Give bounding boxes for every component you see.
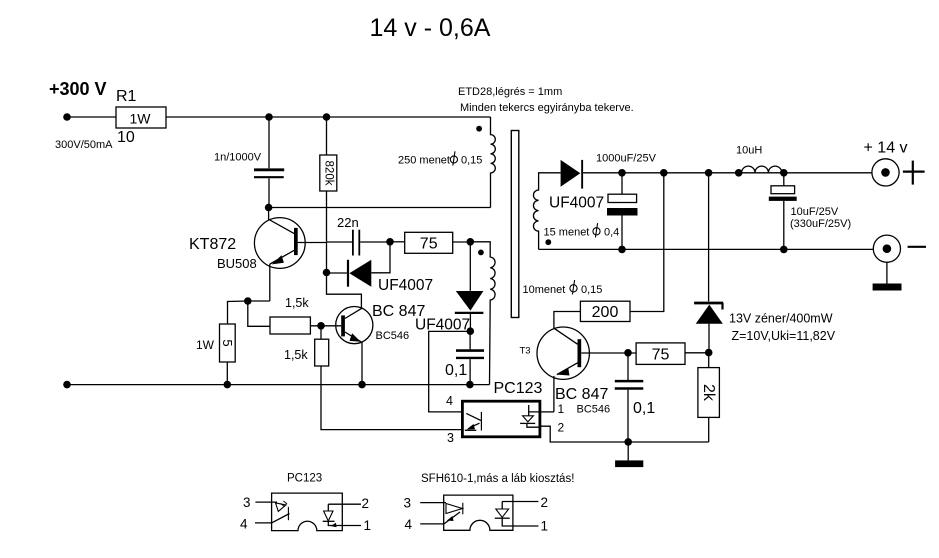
svg-text:0,15: 0,15 — [581, 284, 602, 296]
wire primary ground rail — [67, 384, 490, 386]
junction dot T3 base node — [624, 349, 632, 357]
svg-text:13V zéner/400mW: 13V zéner/400mW — [729, 312, 833, 326]
terminal +14v output — [872, 159, 899, 186]
junction dot 75 right — [467, 238, 475, 246]
junction dot 0,1 cap — [466, 381, 474, 389]
resistor 1,5k horizontal — [270, 317, 310, 334]
svg-text:300V/50mA: 300V/50mA — [55, 139, 113, 151]
svg-text:75: 75 — [420, 236, 438, 253]
capacitor C1 1n/1000V — [254, 117, 284, 208]
optocoupler U1 PC123 — [462, 401, 540, 437]
svg-text:3: 3 — [447, 431, 454, 445]
wire node down to 1,5k — [248, 301, 270, 326]
capacitor C5 1000uF/25V — [607, 173, 638, 250]
transistor Q1 KT872 — [254, 208, 326, 302]
svg-text:4: 4 — [240, 517, 248, 532]
wire PC123 pin1 to T3 emitter — [540, 411, 554, 413]
diode D2 UF4007 left-pointing — [327, 242, 391, 287]
svg-text:1,5k: 1,5k — [285, 296, 309, 310]
junction dot 1000uF bottom — [618, 246, 626, 254]
junction dot snubber — [265, 204, 273, 212]
svg-text:SFH610-1,más a láb kiosztás!: SFH610-1,más a láb kiosztás! — [421, 473, 574, 485]
svg-text:1n/1000V: 1n/1000V — [214, 152, 262, 164]
ground symbol secondary — [615, 442, 643, 467]
junction dot zener node — [705, 349, 713, 357]
wire output bottom rail — [539, 248, 874, 250]
phase dot aux — [478, 250, 484, 256]
junction dot base node — [317, 322, 325, 330]
resistor 5 (1W) — [220, 324, 236, 385]
wire emitter to node — [248, 300, 270, 302]
ground symbol output — [873, 262, 902, 290]
svg-text:ETD28,légrés = 1mm: ETD28,légrés = 1mm — [458, 86, 562, 98]
phase dot secondary — [545, 239, 551, 245]
junction dot secondary ground node — [624, 438, 632, 446]
junction dot zener feed — [705, 169, 713, 177]
wire output top rail — [583, 172, 872, 174]
wire top rail to transformer — [166, 116, 491, 118]
svg-text:2: 2 — [362, 496, 370, 511]
capacitor C7 0,1 (T3 base) — [615, 353, 644, 442]
wire 1,5k to base node — [310, 325, 341, 327]
svg-text:1: 1 — [364, 518, 372, 533]
resistor 1,5k vertical — [315, 326, 463, 430]
svg-text:1000uF/25V: 1000uF/25V — [596, 153, 657, 165]
svg-text:200: 200 — [592, 304, 619, 321]
svg-text:1: 1 — [558, 402, 565, 416]
svg-text:UF4007: UF4007 — [378, 277, 433, 294]
junction dot 200 feed — [660, 169, 668, 177]
transformer aux winding 10 menet — [470, 242, 495, 385]
node +300V input dot — [63, 113, 71, 121]
svg-text:3: 3 — [404, 496, 412, 511]
svg-text:BC546: BC546 — [376, 330, 410, 342]
diode D3 UF4007 down-pointing — [455, 242, 484, 331]
junction dot inductor right — [780, 169, 788, 177]
svg-text:5: 5 — [220, 339, 235, 346]
svg-text:10menet: 10menet — [523, 284, 566, 296]
phase dot primary — [476, 126, 482, 132]
svg-text:10uH: 10uH — [736, 145, 762, 157]
svg-text:1,5k: 1,5k — [284, 348, 308, 362]
svg-text:R1: R1 — [116, 88, 137, 105]
wire to PC123 pin 4 — [429, 331, 471, 412]
wire PC123 pin2 to ground rail — [540, 426, 709, 442]
diode D4 output UF4007 — [561, 160, 584, 189]
resistor 200 — [580, 301, 630, 321]
transformer secondary winding 15 menet — [533, 173, 560, 250]
transformer T1 core — [511, 131, 519, 318]
svg-text:+ 14 v: + 14 v — [864, 140, 908, 157]
junction dot 22n right — [386, 238, 394, 246]
node dot rail left end — [63, 381, 71, 389]
terminal negative output — [873, 235, 900, 262]
svg-text:14 v - 0,6A: 14 v - 0,6A — [370, 14, 491, 42]
wire 200 to T3 collector — [554, 312, 581, 329]
wire base node down to Q2 collector — [327, 242, 362, 308]
junction dot at 820k — [323, 113, 331, 121]
svg-text:PC123: PC123 — [287, 473, 322, 485]
wire T3 base to 75 — [581, 352, 636, 354]
svg-text:1: 1 — [541, 519, 549, 534]
label 10menet d 0,15 — [523, 280, 603, 296]
wire 75 to zener node — [685, 352, 709, 354]
resistor 75 (snubber) — [390, 232, 470, 253]
svg-text:T3: T3 — [520, 346, 531, 357]
transistor Q3 BC847 (T3) — [537, 327, 589, 412]
junction dot at 1n cap — [265, 113, 273, 121]
junction dot emitter node — [244, 297, 252, 305]
transistor Q2 BC847 — [336, 307, 373, 385]
svg-text:0,15: 0,15 — [461, 155, 482, 167]
label 15 menet d 0,4 — [544, 223, 620, 238]
junction dot 1000uF — [618, 169, 626, 177]
wire top rail left — [67, 116, 116, 118]
svg-text:75: 75 — [652, 347, 670, 364]
svg-text:Minden tekercs egyirányba teke: Minden tekercs egyirányba tekerve. — [460, 102, 634, 114]
svg-text:2k: 2k — [700, 384, 717, 402]
svg-text:10uF/25V: 10uF/25V — [791, 206, 839, 218]
svg-text:250 menet: 250 menet — [398, 155, 450, 167]
resistor 2k — [698, 353, 720, 442]
svg-text:1W: 1W — [196, 338, 215, 352]
svg-text:0,1: 0,1 — [445, 362, 467, 379]
resistor 75 (T3 base) — [636, 343, 685, 365]
svg-text:UF4007: UF4007 — [549, 195, 604, 212]
plus sign — [903, 161, 925, 185]
junction dot 5-resistor — [224, 381, 232, 389]
svg-text:3: 3 — [243, 495, 251, 510]
minus sign — [908, 246, 926, 248]
junction dot aux diode node — [467, 327, 475, 335]
wire snubber line to transformer — [269, 207, 491, 209]
svg-text:15 menet: 15 menet — [544, 227, 590, 239]
inductor L1 10uH — [742, 166, 782, 173]
svg-text:BC546: BC546 — [577, 404, 611, 416]
svg-text:PC123: PC123 — [494, 380, 543, 397]
svg-text:4: 4 — [405, 517, 413, 532]
svg-text:1W: 1W — [130, 111, 152, 127]
transformer primary winding 250 menet — [491, 117, 496, 208]
svg-text:+300 V: +300 V — [49, 79, 107, 99]
junction dot 10uF bottom — [780, 246, 788, 254]
wire node to 5 ohm resistor — [228, 301, 248, 324]
svg-text:820k: 820k — [322, 161, 334, 186]
optocoupler pinout SFH610 — [420, 495, 538, 530]
svg-text:KT872: KT872 — [189, 236, 236, 253]
svg-text:2: 2 — [541, 495, 549, 510]
svg-text:(330uF/25V): (330uF/25V) — [790, 218, 851, 230]
junction dot inductor left — [735, 169, 743, 177]
capacitor C6 10uF — [769, 173, 797, 250]
capacitor 22n — [327, 230, 391, 256]
wire top rail to 200 resistor — [630, 173, 664, 312]
svg-text:10: 10 — [117, 129, 135, 146]
svg-text:4: 4 — [446, 394, 453, 408]
zener D5 13V — [694, 173, 723, 353]
svg-text:2: 2 — [558, 421, 565, 435]
svg-text:Z=10V,Uki=11,82V: Z=10V,Uki=11,82V — [732, 329, 836, 343]
capacitor 0,1 (aux) — [456, 331, 484, 384]
junction dot BC847 emitter — [358, 381, 366, 389]
junction dot diode cathode node — [323, 269, 331, 277]
label 250 menet d 0,15 — [398, 151, 482, 166]
resistor R1 — [116, 107, 166, 128]
svg-text:BC 847: BC 847 — [555, 386, 608, 403]
resistor 820k — [320, 117, 337, 242]
optocoupler pinout PC123 — [255, 493, 361, 530]
svg-text:BU508: BU508 — [217, 256, 257, 271]
svg-text:0,4: 0,4 — [604, 227, 619, 239]
svg-text:22n: 22n — [337, 215, 359, 230]
svg-text:0,1: 0,1 — [633, 400, 655, 417]
